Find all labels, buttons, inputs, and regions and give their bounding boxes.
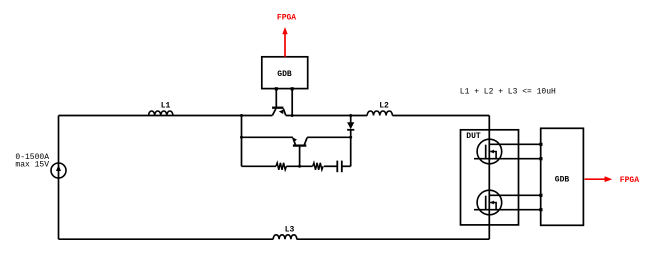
mosfet M1 body contact — [490, 152, 496, 159]
wire capacitor to right vertical — [342, 165, 351, 167]
current source I1 circle — [51, 163, 66, 178]
junction dot main/sub-left — [240, 114, 243, 117]
diode D1 triangle — [347, 122, 354, 129]
transistor Q1 bar — [272, 107, 283, 109]
wire M1 drain sense — [489, 143, 541, 145]
inductor L1 — [149, 111, 173, 116]
wire GDB pin left to Q1 base — [275, 89, 277, 107]
wire right vertical through DUT — [488, 116, 490, 240]
transistor Q1 emitter diagonal — [283, 109, 286, 116]
svg-text:GDB: GDB — [555, 175, 570, 184]
resistor R2 — [313, 163, 323, 170]
wire top horizontal right — [286, 115, 367, 117]
wire Q2 base down — [299, 146, 301, 166]
svg-text:L1: L1 — [161, 102, 171, 111]
wire R1 to R2 — [286, 165, 312, 167]
wire diode anode — [350, 116, 352, 123]
junction dot bottom row — [298, 165, 301, 168]
GDB driver box left — [262, 57, 308, 89]
diode cathode bar — [347, 129, 354, 131]
DUT box — [461, 130, 519, 225]
wire left vertical — [58, 116, 60, 240]
pin square GDB right 3 — [539, 194, 542, 197]
pin square GDB right 4 — [539, 208, 542, 211]
pin square GDB left 2 — [291, 87, 294, 90]
GDB receiver box right — [541, 128, 584, 225]
junction dot main/diode — [349, 114, 352, 117]
mosfet M2 gate bar — [485, 196, 487, 210]
svg-text:max 15V: max 15V — [15, 160, 49, 169]
pin square GDB left 1 — [275, 87, 278, 90]
junction dot mid wire right — [349, 136, 352, 139]
capacitor C1 right plate — [341, 161, 343, 173]
wire top to right corner — [392, 115, 489, 117]
wire bottom horizontal right — [297, 238, 490, 240]
transistor Q2 emitter arrow — [293, 138, 297, 142]
svg-text:L2: L2 — [379, 102, 389, 111]
transistor Q2 collector diagonal — [304, 138, 307, 145]
svg-text:L3: L3 — [285, 226, 295, 235]
junction dot main/GDB pin — [291, 114, 294, 117]
svg-text:FPGA: FPGA — [620, 176, 639, 185]
resistor R1 — [276, 163, 286, 170]
red wire FPGA right — [585, 178, 607, 180]
mosfet M1 gate bar — [485, 145, 487, 159]
wire diode cathode down to cap — [350, 130, 352, 167]
current source arrow head — [56, 165, 61, 171]
mosfet M2 body contact — [490, 203, 496, 210]
wire mid horizontal left — [242, 136, 293, 138]
svg-text:DUT: DUT — [466, 132, 481, 141]
red arrow head FPGA top — [282, 27, 287, 34]
capacitor C1 left plate — [336, 161, 338, 173]
pin square GDB right 2 — [539, 157, 542, 160]
wire M1 gate and source line — [474, 158, 541, 160]
wire R2 to capacitor — [324, 165, 337, 167]
red wire FPGA top — [284, 32, 286, 57]
wire mid horizontal right — [307, 136, 351, 138]
pin square GDB right 1 — [539, 143, 542, 146]
transistor Q1 emitter arrow — [279, 110, 284, 114]
mosfet M1 circle — [477, 139, 502, 164]
wire sub-circuit left vertical — [241, 116, 243, 167]
junction dot mid wire left — [240, 136, 243, 139]
mosfet M2 circle — [477, 190, 502, 215]
transistor Q2 bar — [293, 144, 306, 146]
wire M2 drain sense — [489, 194, 541, 196]
mosfet M1 body arrow — [490, 150, 494, 154]
red arrow head FPGA right — [605, 176, 613, 182]
svg-text:FPGA: FPGA — [277, 14, 296, 23]
svg-text:GDB: GDB — [277, 70, 292, 79]
wire bottom horizontal left — [59, 238, 274, 240]
transistor Q1 collector diagonal — [272, 109, 276, 116]
wire top horizontal left — [59, 115, 273, 117]
inductor L3 — [273, 235, 297, 239]
transistor Q2 emitter diagonal — [293, 138, 296, 145]
wire bottom row left — [242, 165, 277, 167]
inductor L2 — [367, 111, 392, 116]
wire GDB pin right down to main wire — [291, 89, 293, 116]
wire M2 gate and source line — [474, 209, 541, 211]
mosfet M2 body arrow — [490, 201, 494, 205]
svg-text:L1 + L2 + L3 <= 10uH: L1 + L2 + L3 <= 10uH — [460, 88, 556, 97]
